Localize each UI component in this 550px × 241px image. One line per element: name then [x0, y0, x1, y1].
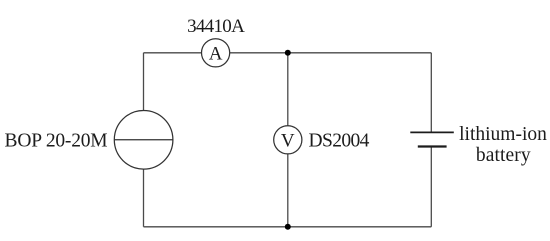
svg-text:V: V — [281, 130, 295, 151]
ammeter A1 circle — [202, 39, 230, 67]
junction top — [285, 50, 291, 56]
wire right upper — [430, 53, 432, 133]
current source I1 bar — [114, 139, 173, 141]
wire left — [143, 53, 145, 227]
wire top — [144, 52, 432, 54]
battery B1 plate short — [418, 145, 447, 147]
svg-text:A: A — [209, 43, 223, 64]
svg-text:lithium-ion: lithium-ion — [459, 124, 547, 145]
junction bottom — [285, 224, 291, 230]
wire middle branch — [287, 53, 289, 227]
svg-text:34410A: 34410A — [187, 16, 245, 37]
wire bottom — [144, 226, 432, 228]
voltmeter V1 circle — [274, 126, 302, 154]
current source I1 circle — [114, 111, 173, 170]
svg-text:BOP 20-20M: BOP 20-20M — [5, 131, 108, 152]
wire right lower — [430, 147, 432, 227]
battery B1 plate long — [410, 131, 454, 133]
svg-text:battery: battery — [476, 145, 531, 166]
svg-text:DS2004: DS2004 — [309, 131, 370, 152]
